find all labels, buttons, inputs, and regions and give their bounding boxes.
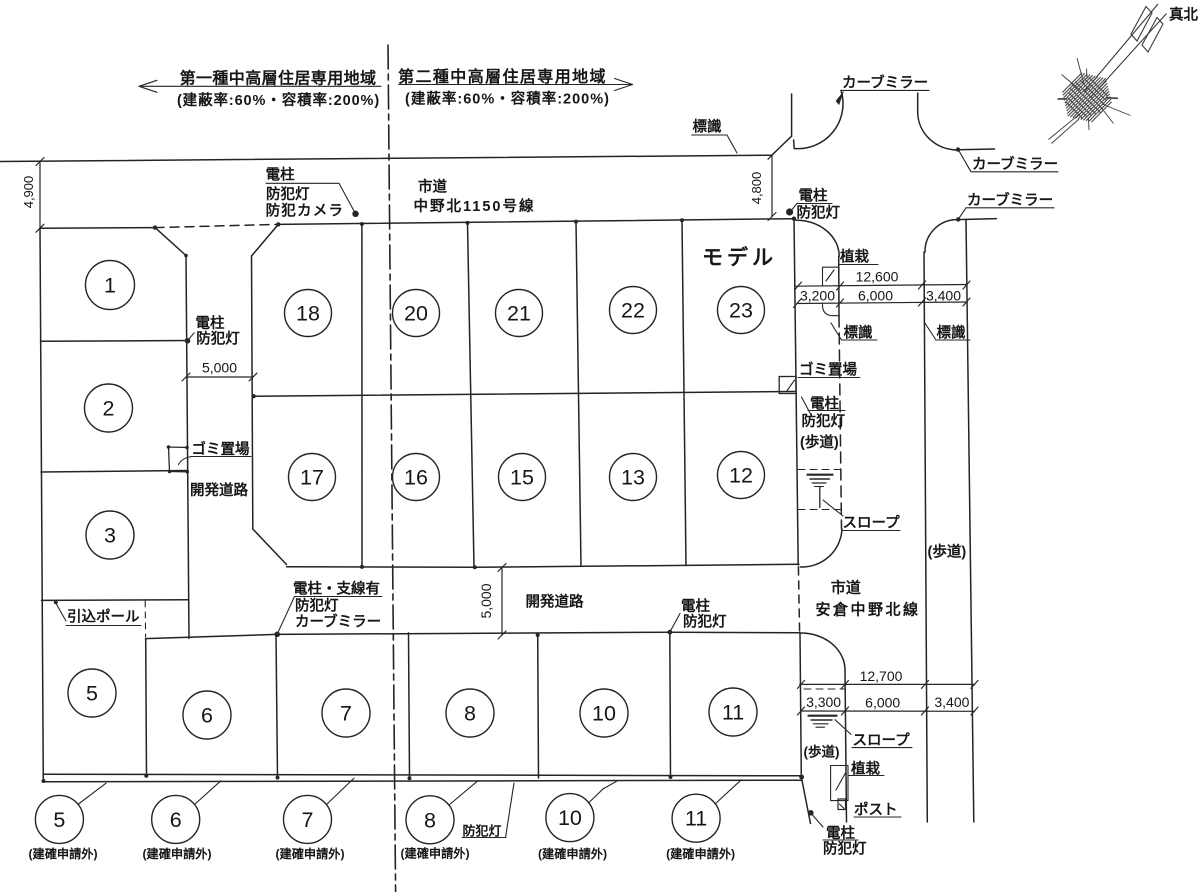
svg-text:防犯灯: 防犯灯 — [266, 185, 310, 203]
east branch south edge — [958, 219, 996, 220]
svg-text:防犯カメラ: 防犯カメラ — [266, 202, 345, 220]
dashed box upper slope — [798, 469, 841, 471]
防犯灯 underline bottom-right label — [823, 854, 870, 856]
bottom double line upper — [43, 774, 802, 776]
svg-text:ゴミ置場: ゴミ置場 — [799, 361, 857, 379]
lot circle 10 — [580, 689, 628, 737]
lot circle 20 — [393, 290, 440, 337]
svg-text:13: 13 — [621, 466, 645, 490]
curb jog below lot 11 — [801, 777, 810, 824]
svg-text:6,000: 6,000 — [858, 288, 893, 304]
svg-text:4,800: 4,800 — [749, 172, 764, 205]
svg-text:(建確申請外): (建確申請外) — [142, 846, 211, 861]
svg-text:8: 8 — [464, 702, 476, 726]
dim strip lower: 12,700 line — [800, 683, 975, 685]
dim strip upper ticks — [795, 282, 802, 290]
svg-text:標識: 標識 — [844, 324, 873, 342]
zone arrow right — [399, 84, 633, 86]
lot 1 top-right chamfer — [155, 228, 186, 256]
svg-text:植栽: 植栽 — [851, 760, 880, 778]
svg-text:11: 11 — [685, 807, 707, 831]
lots top edge: dashed across road mouth — [155, 224, 278, 227]
svg-text:防犯灯: 防犯灯 — [683, 613, 727, 631]
lot 11 east edge — [800, 634, 801, 777]
dim 5,000 horizontal road — [501, 568, 503, 636]
svg-text:3,200: 3,200 — [800, 288, 835, 304]
svg-text:標識: 標識 — [937, 324, 966, 342]
svg-text:引込ポール: 引込ポール — [67, 608, 140, 626]
dashed box lower slope — [804, 688, 844, 690]
north branch east edge + corner curve B — [918, 93, 958, 150]
svg-text:防犯灯: 防犯灯 — [295, 597, 339, 615]
svg-text:真北: 真北 — [1169, 6, 1198, 24]
svg-text:(建確申請外): (建確申請外) — [400, 846, 469, 861]
road 市道中野北1150号線 north edge — [0, 155, 772, 161]
leader circle10 — [589, 781, 618, 803]
row3 top edge (lots6-11) — [146, 632, 801, 638]
svg-text:カーブミラー: カーブミラー — [972, 155, 1058, 173]
lots top edge: solid lots18-23 — [278, 219, 794, 225]
svg-text:4,900: 4,900 — [21, 176, 36, 209]
leader 電柱 left (lot1|2) — [188, 333, 195, 341]
lot circle 5 — [68, 669, 116, 717]
compass line SSE — [1100, 106, 1114, 124]
svg-text:中野北1150号線: 中野北1150号線 — [414, 197, 536, 215]
svg-text:第二種中高層住居専用地域: 第二種中高層住居専用地域 — [398, 67, 607, 86]
leader 電柱・支線有 — [295, 596, 383, 598]
leader 標識 mid-right — [924, 322, 970, 340]
compass radiating tick east — [1106, 97, 1118, 100]
svg-text:電柱: 電柱 — [266, 166, 295, 184]
NW corner arc of lower junction — [800, 529, 842, 567]
lot circle 18 — [285, 290, 332, 337]
svg-text:防犯灯: 防犯灯 — [797, 204, 841, 222]
compass scribble blob — [1062, 73, 1111, 122]
svg-text:ポスト: ポスト — [854, 801, 898, 819]
leader 電柱 bottom right — [811, 813, 823, 827]
dim strip upper: lower line — [797, 302, 967, 304]
svg-text:電柱: 電柱 — [196, 314, 225, 332]
svg-text:3,300: 3,300 — [806, 694, 841, 710]
svg-text:市道: 市道 — [831, 579, 861, 597]
svg-text:6,000: 6,000 — [865, 695, 900, 711]
植栽 upper box — [823, 267, 839, 316]
compass needle shaft — [1084, 4, 1158, 92]
svg-text:23: 23 — [729, 299, 753, 323]
north branch west edge + chamfer — [772, 94, 792, 155]
svg-text:(建蔽率:60%・容積率:200%): (建蔽率:60%・容積率:200%) — [177, 91, 380, 109]
dim 5,000 vertical road — [186, 376, 253, 378]
svg-text:3: 3 — [104, 524, 116, 548]
leader circle8 — [449, 781, 478, 805]
boundary 21|22 15|13 — [576, 222, 581, 567]
svg-text:5,000: 5,000 — [478, 583, 494, 618]
svg-text:電柱: 電柱 — [810, 395, 839, 413]
svg-text:(建確申請外): (建確申請外) — [538, 846, 607, 861]
key circle 10 — [546, 794, 594, 842]
lots top edge: lot1 solid part — [40, 227, 155, 230]
lot circle 23 — [718, 287, 765, 334]
lot6|lot7 boundary — [276, 634, 278, 777]
開発道路 east edge (lots17/18 west) — [252, 256, 253, 529]
leader circle6 — [195, 781, 222, 805]
SW corner arc of top crossroads (lot23 corner) — [796, 220, 839, 256]
svg-text:カーブミラー: カーブミラー — [295, 613, 381, 631]
SW corner arc of lower junction — [801, 633, 846, 670]
key circle 6 — [152, 795, 200, 843]
lot circle 15 — [499, 454, 546, 501]
zone arrow left — [139, 85, 381, 87]
svg-text:7: 7 — [302, 808, 314, 832]
boundary 18|20 17|16 — [361, 224, 363, 567]
svg-text:開発道路: 開発道路 — [526, 593, 584, 611]
west sidewalk edge lower — [845, 670, 847, 822]
svg-text:2: 2 — [103, 397, 115, 421]
svg-text:(建確申請外): (建確申請外) — [28, 846, 97, 861]
svg-text:3,400: 3,400 — [926, 288, 961, 304]
lot3|lot5 boundary — [42, 599, 189, 602]
svg-text:5: 5 — [86, 682, 98, 706]
slope symbol upper — [808, 474, 833, 476]
svg-text:16: 16 — [404, 466, 428, 490]
svg-text:電柱: 電柱 — [799, 187, 828, 205]
leader 電柱 (lot10|11) — [670, 614, 680, 633]
svg-text:スロープ: スロープ — [853, 732, 911, 749]
compass line SW2 — [1052, 119, 1080, 144]
leader 電柱(歩道) right — [802, 397, 811, 413]
lot circle 13 — [610, 454, 657, 501]
ゴミ置場 right box — [779, 377, 796, 394]
svg-text:ゴミ置場: ゴミ置場 — [192, 440, 250, 458]
lot circle 1 — [86, 261, 135, 310]
lot circle 16 — [393, 454, 440, 501]
boundary 22|23 13|12 — [682, 220, 686, 565]
leader カーブミラー1 underline — [841, 89, 929, 91]
svg-text:3,400: 3,400 — [934, 694, 969, 710]
lot circle 3 — [86, 511, 134, 559]
leader 植栽 upper — [839, 264, 878, 266]
leader スロープ upper — [823, 500, 843, 516]
svg-text:(建確申請外): (建確申請外) — [666, 846, 735, 861]
leader スロープ lower — [835, 720, 851, 735]
leader ポスト underline — [854, 816, 901, 818]
svg-text:市道: 市道 — [418, 178, 447, 196]
lot circle 12 — [718, 452, 765, 499]
lot2|lot3 boundary — [41, 471, 187, 473]
key circle 5 — [35, 795, 83, 843]
svg-text:カーブミラー: カーブミラー — [842, 74, 928, 92]
svg-text:7: 7 — [340, 702, 352, 726]
lot circle 22 — [610, 287, 657, 334]
east branch north edge — [958, 148, 995, 151]
compass radiating tick north — [1086, 69, 1089, 80]
compass radiating tick west — [1058, 98, 1068, 100]
arrowhead カーブミラー1 — [836, 92, 844, 105]
svg-text:スロープ: スロープ — [843, 515, 901, 532]
svg-text:植栽: 植栽 — [840, 248, 869, 266]
svg-text:12: 12 — [729, 464, 753, 488]
compass radiating tick south — [1088, 118, 1091, 130]
east sidewalk edge — [966, 220, 974, 823]
svg-text:6: 6 — [201, 704, 213, 728]
compass line NW — [1062, 75, 1081, 91]
svg-text:防犯灯: 防犯灯 — [196, 330, 240, 348]
leader カーブミラー2 — [959, 150, 1059, 172]
svg-text:(歩道): (歩道) — [800, 433, 839, 451]
leader circle7 — [327, 778, 355, 804]
lot circle 17 — [289, 454, 336, 501]
svg-text:10: 10 — [558, 806, 582, 830]
lot circle 21 — [496, 290, 543, 337]
lot 17 bottom-left chamfer — [253, 529, 287, 565]
dim strip lower: lower line — [801, 710, 975, 712]
leader circle5 — [79, 783, 107, 804]
svg-text:22: 22 — [621, 299, 645, 323]
lot circle 8 — [446, 689, 494, 737]
svg-text:6: 6 — [170, 808, 182, 832]
leader 電柱 top right — [790, 204, 832, 213]
lot circle 2 — [85, 384, 133, 432]
zoning boundary dash-dot line — [388, 45, 396, 892]
svg-text:20: 20 — [404, 302, 428, 326]
lot circle 7 — [322, 689, 370, 737]
svg-text:電柱・支線有: 電柱・支線有 — [293, 580, 380, 598]
svg-text:15: 15 — [510, 466, 534, 490]
dashed leader 引込ポール pole line — [144, 601, 146, 637]
svg-text:(歩道): (歩道) — [928, 543, 967, 561]
compass line ESE — [1102, 104, 1131, 116]
svg-text:(建確申請外): (建確申請外) — [275, 846, 344, 861]
lot5|lot6 boundary — [145, 639, 148, 778]
svg-text:17: 17 — [300, 466, 324, 490]
right road west carriageway edge dashed — [839, 316, 842, 529]
svg-text:開発道路: 開発道路 — [190, 481, 248, 499]
bottom double line lower — [43, 780, 802, 782]
slope symbol lower — [809, 715, 837, 717]
svg-text:21: 21 — [507, 302, 531, 326]
dim strip upper: 12,600 line — [795, 285, 967, 287]
svg-text:安倉中野北線: 安倉中野北線 — [816, 601, 921, 619]
svg-text:1: 1 — [104, 274, 116, 298]
svg-text:標識: 標識 — [693, 118, 722, 136]
leader ゴミ置場 right — [798, 377, 860, 379]
left column west edge — [40, 228, 43, 781]
svg-text:8: 8 — [424, 808, 436, 832]
leader 引込ポール — [56, 603, 67, 622]
dim 4,900 line — [39, 162, 41, 229]
leader 標識 top — [692, 135, 737, 153]
植栽 lower box — [831, 766, 848, 801]
svg-text:18: 18 — [296, 302, 320, 326]
svg-text:第一種中高層住居専用地域: 第一種中高層住居専用地域 — [180, 69, 377, 88]
lot circle 6 — [183, 691, 231, 739]
right road west carriageway edge upper — [838, 256, 840, 316]
svg-text:モデル: モデル — [702, 246, 777, 270]
leader ゴミ置場 left — [192, 456, 252, 458]
leader 標識 mid-left — [831, 323, 877, 340]
ゴミ置場 left box — [169, 447, 188, 472]
leader circle11 — [715, 780, 741, 804]
row1|row2 divider — [254, 392, 795, 397]
dim strip lower ticks — [798, 680, 805, 688]
lot 18 top-left chamfer — [252, 224, 279, 256]
svg-text:12,700: 12,700 — [860, 668, 903, 684]
svg-text:(建蔽率:60%・容積率:200%): (建蔽率:60%・容積率:200%) — [405, 90, 610, 108]
svg-text:防犯灯: 防犯灯 — [802, 412, 846, 430]
junction node dots — [352, 211, 358, 217]
lot8|lot10 boundary — [537, 634, 540, 778]
lot10|lot11 boundary — [669, 632, 672, 777]
svg-text:防犯灯: 防犯灯 — [823, 840, 867, 858]
lot circle 11 — [709, 688, 757, 736]
left column east edge (x186) down to lot5 notch — [186, 256, 189, 639]
svg-text:12,600: 12,600 — [856, 269, 899, 285]
NW corner arc of top crossroads (curve A) — [794, 90, 843, 148]
boundary 20|21 16|15 — [468, 223, 475, 567]
leader 電柱 top center — [266, 183, 356, 214]
svg-text:カーブミラー: カーブミラー — [967, 191, 1053, 209]
lot1|lot2 boundary — [41, 340, 188, 343]
east carriageway edge — [924, 252, 927, 822]
compass line SW1 — [1049, 112, 1083, 140]
lot line projection across road mouth (dashed) — [798, 567, 799, 632]
ポスト box — [838, 799, 846, 810]
compass line NNW — [1077, 58, 1084, 84]
dim 4,800 line — [771, 155, 773, 216]
lots 23/12 east edge — [794, 219, 798, 565]
svg-text:防犯灯: 防犯灯 — [463, 824, 502, 839]
key circle 8 — [406, 796, 454, 844]
key circle 11 — [672, 794, 720, 842]
svg-text:10: 10 — [592, 702, 616, 726]
leader 防犯灯 bottom — [506, 783, 515, 838]
svg-text:11: 11 — [722, 701, 744, 725]
leader 植栽 lower — [836, 772, 846, 790]
svg-text:電柱: 電柱 — [826, 824, 855, 842]
svg-text:(歩道): (歩道) — [804, 744, 840, 760]
SE corner arc of top crossroads — [925, 220, 957, 252]
compass feather barbs — [1131, 7, 1152, 42]
key circle 7 — [284, 795, 332, 843]
svg-text:電柱: 電柱 — [681, 597, 710, 615]
svg-text:5: 5 — [53, 808, 65, 832]
lot7|lot8 boundary — [409, 633, 410, 778]
leader カーブミラー3 — [958, 208, 1054, 220]
row2 bottom edge — [287, 564, 800, 567]
svg-text:5,000: 5,000 — [202, 360, 237, 376]
